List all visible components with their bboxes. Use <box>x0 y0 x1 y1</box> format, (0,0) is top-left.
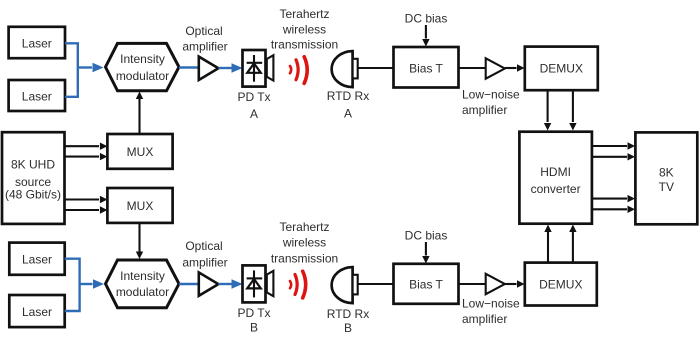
wire MUX A to modulator A (up arrow) <box>136 92 143 135</box>
svg-text:(48 Gbit/s): (48 Gbit/s) <box>5 188 61 202</box>
svg-text:A: A <box>250 107 258 121</box>
label low-noise amplifier A <box>462 88 520 118</box>
svg-text:Optical: Optical <box>185 239 222 253</box>
svg-text:Laser: Laser <box>22 253 52 267</box>
label RTD Rx A <box>327 89 369 121</box>
DEMUX A <box>525 47 598 91</box>
svg-text:B: B <box>250 321 258 335</box>
svg-text:Terahertz: Terahertz <box>279 7 329 21</box>
svg-text:Bias T: Bias T <box>409 278 443 292</box>
laser L1 <box>9 27 65 58</box>
svg-text:DEMUX: DEMUX <box>539 278 582 292</box>
wire DEMUX B to HDMI converter (two up arrows) <box>544 225 576 263</box>
svg-text:transmission: transmission <box>271 38 338 52</box>
wire DEMUX A to HDMI converter (two down arrows) <box>544 90 577 130</box>
svg-text:Laser: Laser <box>22 90 52 104</box>
label RTD Rx B <box>327 307 369 335</box>
label optical amplifier A <box>182 24 227 54</box>
wire RTD Rx A to bias tee A <box>358 67 394 69</box>
svg-text:DC bias: DC bias <box>405 229 448 243</box>
bias tee U4 <box>394 264 459 304</box>
wire MUX B to modulator B (down arrow) <box>136 223 143 259</box>
laser L2 <box>9 80 65 111</box>
svg-text:TV: TV <box>659 180 674 194</box>
svg-text:8K UHD: 8K UHD <box>11 158 55 172</box>
svg-text:PD Tx: PD Tx <box>237 306 270 320</box>
svg-text:converter: converter <box>531 182 581 196</box>
wire bias tee A to LNA A <box>459 67 487 69</box>
label PD Tx B <box>237 306 270 335</box>
svg-text:MUX: MUX <box>127 199 154 213</box>
bias tee U2 <box>394 47 459 88</box>
svg-text:wireless: wireless <box>282 22 326 36</box>
8K UHD source <box>2 132 65 224</box>
wire lasers B to modulator (blue) <box>65 259 104 311</box>
label low-noise amplifier B <box>462 297 520 327</box>
svg-text:Intensity: Intensity <box>120 52 165 66</box>
svg-text:Intensity: Intensity <box>120 269 165 283</box>
intensity modulator U3 <box>106 260 180 308</box>
HDMI converter <box>519 132 592 224</box>
wire optical amplifier B to PD Tx B (blue arrow) <box>218 279 242 289</box>
intensity modulator U1 <box>106 43 180 90</box>
svg-text:Low−noise: Low−noise <box>462 88 520 102</box>
svg-text:modulator: modulator <box>116 69 169 83</box>
label terahertz wireless transmission B <box>271 220 338 266</box>
svg-text:HDMI: HDMI <box>540 165 571 179</box>
svg-text:PD Tx: PD Tx <box>237 90 270 104</box>
MUX B <box>107 188 172 223</box>
svg-text:wireless: wireless <box>282 235 326 249</box>
label optical amplifier B <box>182 239 227 270</box>
svg-text:amplifier: amplifier <box>182 256 227 270</box>
svg-text:amplifier: amplifier <box>462 103 507 117</box>
svg-text:Optical: Optical <box>185 24 222 38</box>
svg-text:Bias T: Bias T <box>409 62 443 76</box>
wire LNA A to DEMUX A (arrow) <box>505 64 525 71</box>
PD Tx A <box>243 50 274 87</box>
PD Tx B <box>243 265 274 302</box>
svg-text:Laser: Laser <box>22 305 52 319</box>
wire optical amplifier A to PD Tx A (blue arrow) <box>218 63 242 73</box>
svg-text:8K: 8K <box>659 166 674 180</box>
optical amplifier B <box>199 272 219 295</box>
svg-text:RTD Rx: RTD Rx <box>327 307 369 321</box>
svg-text:amplifier: amplifier <box>182 40 227 54</box>
wire modulator B to optical amplifier B (blue) <box>179 283 199 285</box>
label PD Tx A <box>237 90 270 121</box>
svg-text:modulator: modulator <box>116 285 169 299</box>
RTD Rx A <box>332 51 358 87</box>
svg-text:Low−noise: Low−noise <box>462 297 520 311</box>
svg-text:MUX: MUX <box>127 145 154 159</box>
laser L4 <box>9 295 64 327</box>
svg-text:Terahertz: Terahertz <box>279 220 329 234</box>
low-noise amplifier B <box>486 274 505 294</box>
8K TV <box>635 132 697 224</box>
wires HDMI converter to 8K TV (four arrows) <box>592 142 635 213</box>
wires source to MUX B (two arrows) <box>65 196 108 214</box>
laser L3 <box>9 243 64 275</box>
terahertz waves A (red arcs) <box>290 57 307 84</box>
svg-text:DC bias: DC bias <box>405 12 448 26</box>
wire bias tee B to LNA B <box>459 283 487 285</box>
svg-text:A: A <box>344 107 352 121</box>
label terahertz wireless transmission A <box>271 7 338 52</box>
low-noise amplifier A <box>486 58 505 78</box>
wire DC bias B arrow <box>422 242 429 264</box>
MUX A <box>107 134 172 169</box>
svg-text:RTD Rx: RTD Rx <box>327 89 369 103</box>
svg-text:transmission: transmission <box>271 252 338 266</box>
svg-text:B: B <box>344 321 352 335</box>
svg-text:amplifier: amplifier <box>462 312 507 326</box>
wire modulator A to optical amplifier A (blue) <box>179 66 199 68</box>
svg-text:Laser: Laser <box>22 37 52 51</box>
wire DC bias A arrow <box>422 25 429 47</box>
wire LNA B to DEMUX B (arrow) <box>505 280 525 287</box>
optical amplifier A <box>199 57 219 80</box>
wire RTD Rx B to bias tee B <box>358 283 394 285</box>
RTD Rx B <box>332 267 358 303</box>
DEMUX B <box>525 263 597 306</box>
terahertz waves B (red arcs) <box>290 271 306 298</box>
svg-text:DEMUX: DEMUX <box>540 62 583 76</box>
wires source to MUX A (two arrows) <box>65 143 108 161</box>
wire lasers A to modulator (blue) <box>65 43 104 97</box>
